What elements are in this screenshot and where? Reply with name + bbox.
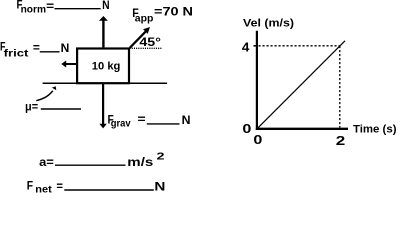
svg-text:frict: frict — [4, 48, 29, 60]
svg-text:N: N — [61, 43, 70, 55]
svg-text:grav: grav — [111, 118, 131, 130]
svg-text:N: N — [154, 182, 165, 194]
svg-text:N: N — [182, 115, 191, 127]
label Fapp — [132, 6, 193, 24]
svg-text:norm: norm — [21, 4, 46, 16]
arrow Fgrav down — [99, 84, 106, 128]
dotted reference line — [130, 47, 163, 49]
graph x-axis — [256, 128, 348, 130]
arrow Fnorm up — [99, 16, 108, 47]
label mu — [25, 102, 81, 114]
svg-text:net: net — [35, 184, 52, 195]
svg-text:Vel (m/s): Vel (m/s) — [243, 17, 294, 29]
label Ffrict — [0, 41, 69, 59]
svg-text:4: 4 — [242, 40, 250, 55]
label Fnorm — [17, 0, 110, 16]
box 10 kg — [77, 49, 129, 84]
svg-text:=: = — [56, 181, 63, 193]
svg-text:m/s: m/s — [127, 157, 153, 169]
svg-text:10 kg: 10 kg — [92, 60, 121, 72]
svg-text:μ=: μ= — [25, 102, 38, 114]
svg-text:=70 N: =70 N — [154, 6, 193, 18]
label Fnet equation — [27, 180, 166, 195]
svg-text:N: N — [102, 0, 110, 12]
svg-text:0: 0 — [242, 121, 251, 136]
label a equation — [39, 150, 165, 169]
svg-text:=: = — [46, 1, 54, 13]
label Fgrav — [108, 114, 191, 130]
ground line — [43, 82, 168, 84]
svg-text:45°: 45° — [139, 37, 161, 49]
arrow Ffrict left — [61, 61, 76, 68]
svg-text:2: 2 — [157, 150, 165, 162]
svg-text:=: = — [138, 114, 146, 126]
svg-text:2: 2 — [336, 133, 346, 148]
svg-text:F: F — [27, 180, 33, 192]
mu curved arrow — [36, 86, 56, 101]
graph y-axis — [256, 31, 258, 130]
diagonal velocity line — [258, 41, 346, 129]
arrow Fapp diagonal 45deg — [130, 27, 150, 48]
tick at 4 — [254, 45, 259, 47]
svg-text:0: 0 — [253, 132, 262, 147]
svg-text:Time (s): Time (s) — [353, 124, 397, 136]
svg-text:=: = — [33, 43, 40, 55]
svg-text:a=: a= — [39, 157, 54, 169]
dashed line at t=2 — [339, 46, 341, 128]
dashed line at v=4 — [259, 45, 340, 47]
svg-text:app: app — [135, 13, 154, 25]
